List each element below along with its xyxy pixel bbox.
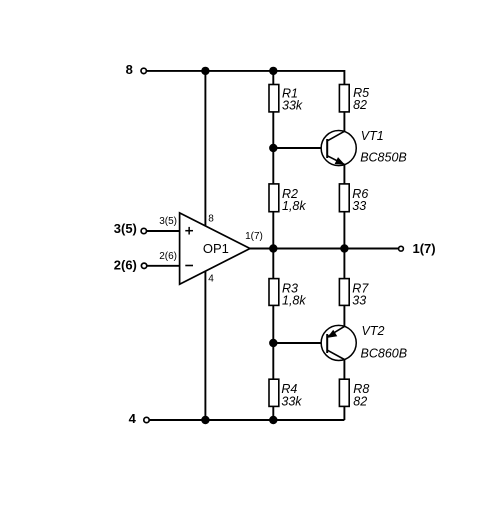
svg-text:4: 4 [208,274,214,285]
svg-text:8: 8 [126,62,133,77]
resistor R3 [269,279,279,306]
wire bottom rail from terminal 4 to right chain [150,419,345,421]
svg-text:33: 33 [352,293,366,307]
svg-text:VT1: VT1 [361,129,384,143]
svg-text:1(7): 1(7) [245,231,263,242]
terminal pin 2(6) [141,263,146,268]
svg-text:82: 82 [353,98,367,112]
svg-text:33k: 33k [282,99,303,113]
junction top rail at left chain [269,67,277,75]
resistor R8 [339,379,349,406]
wire VT1 base [273,147,327,149]
wire right chain VT1 emitter to R6 [343,165,345,185]
junction VT2 base at left chain [269,339,277,347]
wire output from op-amp apex to terminal 1(7) [250,248,398,250]
resistor R2 [269,184,279,212]
terminal pin 8 [141,68,146,73]
wire right chain VT2 collector to R8 and bottom corner [343,359,345,420]
wire VT2 base [273,342,327,344]
svg-text:2(6): 2(6) [114,258,137,273]
svg-text:BC860B: BC860B [361,346,408,360]
junction bottom rail at left chain [269,416,277,424]
svg-text:OP1: OP1 [203,241,229,256]
junction VT1 base at left chain [269,144,277,152]
op-amp plus sign [185,227,193,235]
resistor R6 [339,184,349,212]
junction top rail at op-amp power line [201,67,209,75]
wire right chain R5 to VT1 collector [343,112,345,132]
wire left resistor chain vertical [272,71,274,420]
resistor R5 [339,85,349,112]
svg-text:33: 33 [352,199,366,213]
wire right chain R7 to VT2 emitter [343,305,345,326]
svg-text:82: 82 [353,395,367,409]
wire top rail from terminal 8 to right chain corner [147,71,345,85]
wire right chain R6 to R7 through output node [343,212,345,279]
resistor R4 [269,379,279,406]
svg-text:BC850B: BC850B [360,151,407,165]
svg-text:8: 8 [208,214,214,225]
transistor Q2 (VT2 BC860B) [321,324,407,360]
op-amp U1 triangle [180,213,250,284]
terminal pin 4 [144,417,149,422]
svg-text:VT2: VT2 [362,324,385,338]
svg-text:4: 4 [129,411,137,426]
op-amp minus sign [185,265,193,267]
resistor R1 [269,85,279,112]
svg-text:1,8k: 1,8k [282,199,306,213]
junction bottom rail at op-amp power line [201,416,209,424]
resistor R7 [339,279,349,306]
svg-text:1(7): 1(7) [413,241,436,256]
wire inverting input [147,265,180,267]
wire op-amp power line (vertical through op-amp, pin 8 top / pin 4 bottom) [204,71,206,420]
svg-text:1,8k: 1,8k [282,293,306,307]
terminal pin 1(7) output [399,246,404,251]
svg-text:33k: 33k [281,395,302,409]
wire non-inverting input [147,230,180,232]
svg-text:2(6): 2(6) [159,251,177,262]
terminal pin 3(5) [141,228,146,233]
transistor Q1 (VT1 BC850B) [321,129,407,166]
junction output at right chain [340,244,348,252]
svg-text:3(5): 3(5) [114,221,137,236]
svg-text:3(5): 3(5) [159,216,177,227]
junction output at left chain [269,244,277,252]
